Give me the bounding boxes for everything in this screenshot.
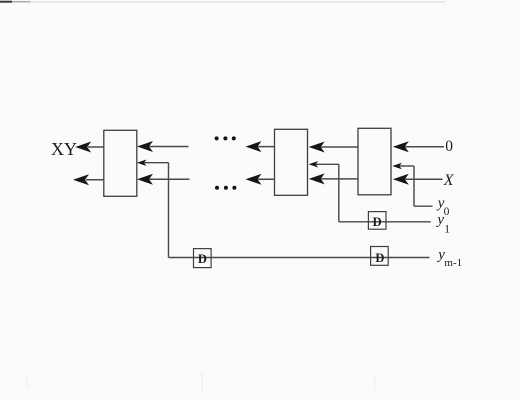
svg-text:y: y xyxy=(435,212,444,228)
label y1 xyxy=(435,212,450,235)
flip-flop D3 xyxy=(371,247,389,266)
wire XY output with arrowhead xyxy=(75,142,104,153)
scan artifact bottom ticks xyxy=(27,372,375,392)
flip-flop D1 xyxy=(194,249,212,268)
ellipsis dots top xyxy=(215,136,236,140)
wire small y0 input into U3 xyxy=(392,163,432,206)
wire into U1 bottom with arrowhead xyxy=(137,174,190,185)
ellipsis dots bottom xyxy=(215,186,236,190)
svg-text:X: X xyxy=(443,172,455,189)
wire y m-1 net horizontal xyxy=(169,257,430,259)
wire into U2 top with arrowhead xyxy=(309,142,358,153)
wire X input into U3 with arrowhead xyxy=(393,174,443,185)
svg-text:XY: XY xyxy=(51,139,77,159)
wire U2 bottom output with arrowhead xyxy=(246,174,275,185)
label y0 xyxy=(436,196,450,218)
wire U2 top output with arrowhead xyxy=(246,141,275,152)
scan artifact top edge xyxy=(0,1,445,3)
label X xyxy=(443,172,455,189)
svg-text:D: D xyxy=(373,215,382,229)
cell U2 xyxy=(275,129,308,195)
label 0 xyxy=(445,138,453,155)
svg-text:0: 0 xyxy=(444,206,450,218)
wire into U2 bottom with arrowhead xyxy=(309,173,358,184)
wire 0 input into U3 with arrowhead xyxy=(393,141,444,152)
wire y1 net horizontal xyxy=(339,221,431,223)
wire small input into U1 (from y m-1 net) xyxy=(137,160,169,258)
cell U1 xyxy=(104,130,137,196)
svg-text:D: D xyxy=(198,252,207,266)
cell U3 xyxy=(358,128,391,195)
label y m-1 xyxy=(436,247,462,269)
svg-text:m-1: m-1 xyxy=(444,257,462,269)
wire into U1 top with arrowhead xyxy=(137,141,189,152)
wire small input into U2 (from y1 net) xyxy=(309,161,339,222)
svg-text:1: 1 xyxy=(444,223,450,235)
svg-text:0: 0 xyxy=(445,138,453,155)
flip-flop D2 xyxy=(368,212,386,230)
label XY xyxy=(51,139,77,159)
svg-text:D: D xyxy=(375,251,384,265)
wire left cell bottom output with arrowhead xyxy=(73,174,104,185)
